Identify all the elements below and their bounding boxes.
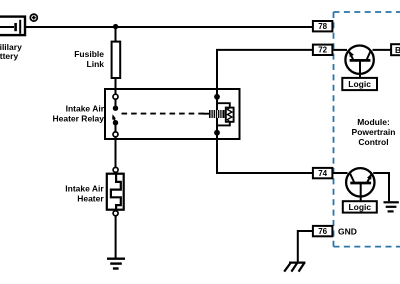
B+ box [391, 44, 400, 55]
resistor in parallel with relay coil [217, 103, 234, 125]
pin box 74 [313, 168, 333, 178]
svg-text:74: 74 [318, 169, 327, 178]
wire: PCM pin 72 to relay coil [217, 50, 312, 96]
svg-text:Powertrain: Powertrain [352, 127, 396, 137]
intake air heater element box [107, 174, 124, 210]
svg-text:Module:: Module: [357, 117, 390, 127]
svg-text:Logic: Logic [348, 202, 371, 212]
svg-text:Intake Air: Intake Air [66, 104, 105, 114]
earth ground G1 [107, 259, 125, 269]
relay box (Intake Air Heater Relay) [105, 89, 240, 139]
wire: pin 72 to transistor Q1 [334, 49, 348, 51]
svg-text:Heater Relay: Heater Relay [52, 114, 104, 124]
wire: battery positive to junction and PCM pin 78 [25, 26, 312, 28]
wire: relay coil to PCM pin 74 [217, 133, 312, 173]
relay coil (solenoid winding) [203, 110, 225, 118]
dashed control linkage: switch to coil [122, 113, 205, 115]
battery B1 (Auxiliary Battery) [0, 17, 25, 35]
svg-text:Intake Air: Intake Air [65, 183, 104, 193]
wire: pin 76 to chassis ground [298, 231, 312, 262]
svg-text:78: 78 [318, 22, 327, 31]
svg-text:Fusible: Fusible [74, 49, 104, 59]
wire: Q2 to internal ground [373, 173, 389, 201]
relay coil top node [214, 94, 220, 100]
svg-text:GND: GND [338, 226, 357, 236]
svg-text:Logic: Logic [348, 79, 371, 89]
svg-text:Battery: Battery [0, 51, 18, 61]
svg-text:Link: Link [87, 59, 105, 69]
module internal ground [384, 202, 399, 211]
wire: heater to ground [115, 216, 117, 259]
relay switch blade with arrowhead (open) [112, 114, 116, 122]
module boundary (PCM, dashed blue) [334, 12, 400, 247]
wire through coil [216, 97, 218, 133]
wire: fusible link to relay switch [115, 78, 117, 94]
pin box 76 [313, 226, 333, 236]
node: junction of battery feed and fusible link [113, 24, 118, 29]
heater element (meander) [111, 174, 121, 210]
svg-text:76: 76 [318, 227, 327, 236]
wire: upper terminal to pivot dot [115, 99, 117, 106]
wire: junction to fusible link [115, 27, 117, 42]
svg-text:Control: Control [358, 137, 388, 147]
relay switch lower dot [113, 120, 118, 125]
logic box 2 [343, 201, 377, 212]
pin box 78 [313, 21, 333, 31]
relay switch upper dot [113, 106, 118, 111]
wire: Q1 to B+ [373, 49, 392, 51]
transistor Q1 (high-side driver) [345, 46, 373, 78]
transistor Q2 (low-side driver) [346, 168, 374, 201]
pin box 72 [313, 45, 333, 55]
relay coil bottom node [214, 130, 220, 136]
wire: lower dot to lower terminal [115, 124, 117, 132]
fusible link F1 [112, 42, 121, 78]
chassis ground [284, 263, 305, 272]
svg-text:B+: B+ [395, 45, 400, 55]
relay lower contact terminal [113, 132, 118, 137]
wire: relay switch to heater [115, 137, 117, 168]
wire: pin 74 to transistor Q2 [334, 172, 348, 174]
plus terminal symbol [30, 14, 37, 21]
relay upper contact terminal [113, 94, 118, 99]
logic box 1 [342, 78, 377, 90]
heater bottom terminal [113, 211, 118, 216]
heater top terminal [113, 167, 118, 172]
svg-text:72: 72 [318, 46, 327, 55]
svg-text:Heater: Heater [77, 193, 104, 203]
